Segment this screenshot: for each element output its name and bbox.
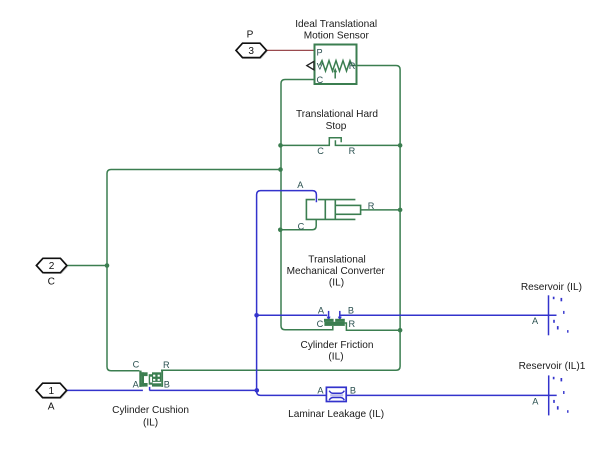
svg-text:Reservoir (IL)1: Reservoir (IL)1 (519, 361, 586, 372)
svg-text:R: R (349, 146, 356, 156)
svg-text:Motion Sensor: Motion Sensor (304, 30, 370, 41)
svg-text:R: R (349, 61, 356, 71)
svg-text:Cylinder Friction: Cylinder Friction (301, 340, 374, 351)
svg-text:A: A (297, 180, 304, 190)
svg-text:A: A (532, 316, 539, 326)
svg-text:R: R (163, 360, 170, 370)
svg-text:R: R (368, 201, 375, 211)
svg-text:C: C (133, 360, 140, 370)
svg-text:Translational: Translational (308, 254, 365, 265)
svg-text:Reservoir (IL): Reservoir (IL) (521, 282, 582, 293)
svg-text:B: B (348, 305, 354, 315)
svg-text:B: B (164, 380, 170, 390)
svg-text:V: V (317, 62, 324, 72)
svg-text:P: P (317, 47, 323, 57)
svg-text:Ideal Translational: Ideal Translational (295, 19, 377, 30)
svg-text:B: B (350, 385, 356, 395)
svg-text:Stop: Stop (326, 121, 347, 132)
svg-text:(IL): (IL) (329, 278, 344, 289)
svg-text:Laminar Leakage (IL): Laminar Leakage (IL) (288, 409, 384, 420)
svg-text:Mechanical Converter: Mechanical Converter (287, 266, 386, 277)
svg-text:C: C (48, 277, 55, 288)
svg-text:(IL): (IL) (328, 352, 343, 363)
svg-text:P: P (247, 30, 254, 41)
svg-text:A: A (48, 402, 55, 413)
svg-text:A: A (318, 305, 325, 315)
svg-text:C: C (317, 319, 324, 329)
svg-text:1: 1 (48, 386, 54, 397)
svg-text:R: R (348, 319, 355, 329)
svg-text:3: 3 (248, 46, 254, 57)
svg-text:C: C (317, 146, 324, 156)
svg-text:Translational Hard: Translational Hard (296, 109, 378, 120)
svg-text:A: A (532, 397, 539, 407)
svg-text:C: C (317, 75, 324, 85)
svg-text:(IL): (IL) (143, 417, 158, 428)
svg-text:A: A (133, 380, 140, 390)
svg-text:2: 2 (49, 261, 55, 272)
svg-text:C: C (298, 222, 305, 232)
svg-text:A: A (317, 385, 324, 395)
svg-text:Cylinder Cushion: Cylinder Cushion (112, 405, 189, 416)
